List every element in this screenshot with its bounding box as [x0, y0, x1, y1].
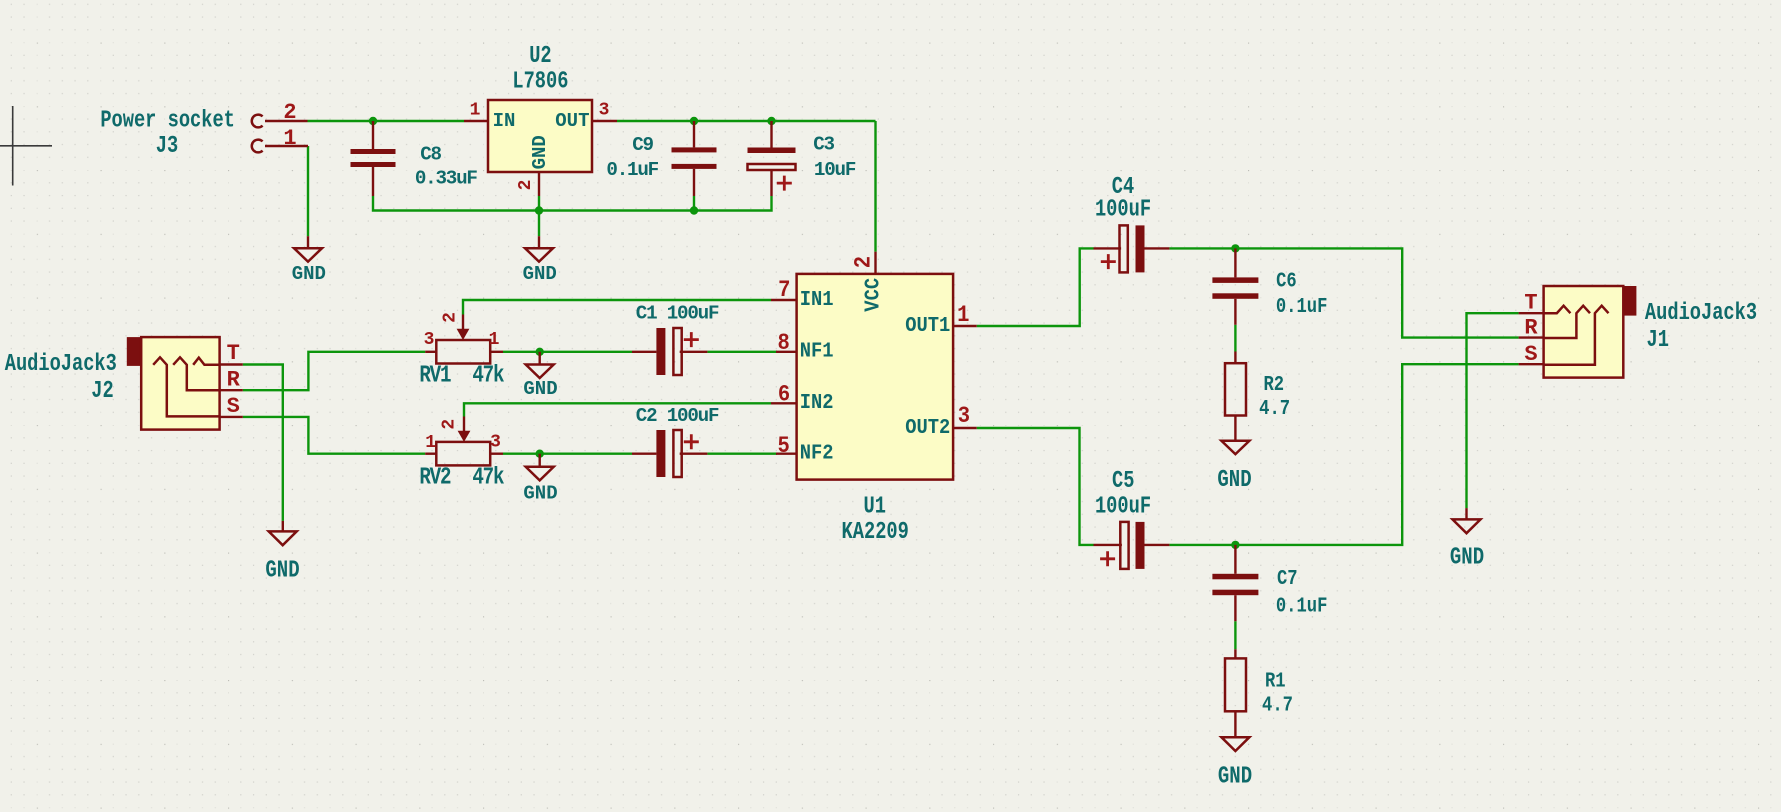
svg-text:100uF: 100uF — [1095, 492, 1151, 520]
svg-text:GND: GND — [265, 556, 299, 584]
svg-text:1: 1 — [489, 330, 500, 350]
regulator U2 body — [488, 100, 592, 172]
svg-text:C1 100uF: C1 100uF — [636, 303, 719, 325]
wire J3 pin2 to U2 IN — [308, 120, 465, 122]
U1 pin 7 — [771, 299, 797, 301]
svg-text:6: 6 — [778, 381, 790, 408]
wire NF2 left net — [503, 453, 632, 455]
wire NF2 right net — [707, 453, 777, 455]
J1 pin R — [1519, 336, 1544, 338]
svg-text:T: T — [1524, 291, 1537, 316]
svg-text:OUT2: OUT2 — [905, 416, 950, 440]
svg-text:C2 100uF: C2 100uF — [636, 405, 719, 427]
wire NF1 right net — [707, 351, 777, 353]
svg-text:R: R — [1524, 316, 1538, 341]
wire J1 T to GND drop — [1467, 313, 1519, 508]
svg-text:0.1uF: 0.1uF — [606, 159, 658, 181]
svg-text:KA2209: KA2209 — [842, 518, 909, 546]
wire C9 bottom stub — [693, 196, 695, 211]
svg-text:J2: J2 — [91, 377, 113, 405]
ground U2 — [538, 236, 540, 248]
svg-text:GND: GND — [523, 378, 557, 400]
J2 pin R — [220, 389, 243, 391]
svg-text:S: S — [1524, 342, 1537, 367]
svg-text:1: 1 — [470, 101, 481, 121]
U1 pin 1 — [953, 325, 977, 327]
svg-text:2: 2 — [850, 256, 877, 268]
svg-text:4.7: 4.7 — [1262, 693, 1293, 717]
ground NF1 junction — [539, 352, 541, 365]
svg-text:C9: C9 — [632, 134, 653, 156]
svg-text:2: 2 — [440, 419, 460, 430]
ground R1 — [1221, 737, 1249, 751]
junction C5 out — [1231, 541, 1239, 549]
wire down to U1 VCC — [874, 121, 876, 252]
capacitor C2 polarized — [632, 453, 656, 455]
svg-text:2: 2 — [441, 312, 461, 323]
capacitor C3 polarized — [770, 121, 772, 148]
svg-text:3: 3 — [958, 403, 970, 430]
audio jack J2 body — [127, 337, 143, 366]
capacitor C7 — [1234, 545, 1236, 574]
ground NF2 junction — [539, 454, 541, 468]
svg-text:100uF: 100uF — [1095, 195, 1151, 223]
sheet origin crosshair — [0, 106, 52, 186]
junction at C9 top — [690, 117, 698, 125]
wire U2 GND drop — [538, 211, 540, 237]
svg-text:S: S — [227, 394, 240, 419]
capacitor C1 polarized — [632, 351, 656, 353]
wire NF1 left net — [503, 351, 632, 353]
J2 contact S — [153, 357, 219, 416]
svg-text:1: 1 — [425, 433, 436, 453]
junction at C9 bottom rail — [690, 206, 698, 214]
wire U2 OUT to corner — [617, 120, 876, 122]
svg-text:AudioJack3: AudioJack3 — [1645, 299, 1757, 327]
U1 pin 5 — [776, 453, 797, 455]
svg-text:R: R — [227, 368, 241, 393]
svg-text:C3: C3 — [813, 134, 834, 156]
wire IN2 net — [464, 403, 771, 416]
U2 pin 3 — [592, 120, 617, 122]
wire J2 S to RV2 pin1 — [243, 417, 425, 454]
svg-text:IN1: IN1 — [800, 288, 834, 312]
wire J2 R to RV1 pin3 — [243, 352, 425, 390]
ground J2 — [282, 521, 284, 532]
wire C7 to R1 mid — [1234, 621, 1236, 649]
svg-text:R2: R2 — [1263, 372, 1284, 396]
svg-text:5: 5 — [777, 433, 789, 460]
U1 pin 6 — [771, 402, 797, 404]
svg-text:GND: GND — [523, 263, 557, 285]
svg-text:C7: C7 — [1277, 566, 1298, 590]
svg-text:T: T — [227, 341, 240, 366]
capacitor C8 — [372, 121, 374, 149]
svg-text:1: 1 — [283, 126, 296, 151]
svg-text:3: 3 — [424, 330, 435, 350]
junction at C8 top — [369, 117, 377, 125]
capacitor C5 polarized — [1094, 544, 1122, 546]
U2 pin 2 — [538, 172, 540, 196]
J2 contact R — [173, 357, 219, 390]
junction NF1 gnd — [536, 348, 544, 356]
audio jack J1 body — [1621, 286, 1637, 316]
svg-text:C5: C5 — [1112, 467, 1134, 495]
svg-text:2: 2 — [516, 180, 536, 191]
capacitor C9 — [693, 121, 695, 147]
svg-text:GND: GND — [529, 135, 551, 169]
svg-text:RV1: RV1 — [419, 362, 451, 390]
svg-text:Power socket: Power socket — [100, 106, 235, 134]
wire C4 to J1 R — [1169, 248, 1518, 337]
wire C5 to J1 S — [1169, 364, 1518, 545]
svg-text:0.33uF: 0.33uF — [415, 168, 478, 190]
svg-text:1: 1 — [957, 302, 969, 329]
svg-text:J1: J1 — [1646, 326, 1668, 354]
svg-text:GND: GND — [523, 482, 557, 504]
J2 contact T — [193, 358, 219, 365]
svg-text:C6: C6 — [1276, 269, 1297, 293]
svg-text:4.7: 4.7 — [1259, 396, 1290, 420]
svg-text:NF1: NF1 — [800, 340, 834, 364]
svg-text:GND: GND — [1450, 543, 1484, 571]
svg-text:47k: 47k — [472, 362, 504, 390]
junction at U2 GND rail — [535, 206, 543, 214]
svg-text:2: 2 — [283, 100, 296, 125]
junction at C3 top — [767, 117, 775, 125]
svg-text:GND: GND — [292, 263, 326, 285]
svg-text:10uF: 10uF — [814, 159, 856, 181]
svg-text:OUT: OUT — [555, 110, 589, 132]
wire OUT2 to C5 — [977, 428, 1094, 545]
svg-text:RV2: RV2 — [419, 464, 450, 492]
capacitor C6 — [1234, 248, 1236, 277]
U2 pin 1 — [464, 120, 488, 122]
svg-text:C8: C8 — [420, 144, 441, 166]
svg-text:J3: J3 — [156, 132, 178, 160]
svg-text:8: 8 — [778, 330, 790, 357]
svg-text:0.1uF: 0.1uF — [1276, 295, 1328, 319]
J1 contact S — [1544, 306, 1609, 365]
svg-text:47k: 47k — [472, 464, 504, 492]
J1 contact T — [1544, 306, 1571, 314]
wire bottom rail C8 to C3 — [373, 196, 772, 211]
wire J2 T to GND drop — [243, 365, 283, 521]
connector J3 pin 1 — [252, 140, 263, 153]
junction NF2 gnd — [536, 450, 544, 458]
svg-text:GND: GND — [1217, 466, 1251, 494]
svg-text:GND: GND — [1218, 763, 1252, 791]
svg-text:U2: U2 — [529, 42, 551, 70]
junction C4 out — [1231, 244, 1239, 252]
svg-text:IN2: IN2 — [800, 391, 834, 415]
J1 pin T — [1519, 312, 1544, 314]
U1 pin 2 VCC — [874, 252, 876, 274]
U1 pin 8 — [776, 351, 797, 353]
svg-text:3: 3 — [599, 101, 610, 121]
ground R2 — [1221, 441, 1249, 454]
wire U2 GND stub — [538, 196, 540, 211]
svg-text:VCC: VCC — [862, 278, 886, 312]
svg-text:0.1uF: 0.1uF — [1276, 594, 1328, 618]
svg-text:3: 3 — [490, 433, 501, 453]
capacitor C4 polarized — [1094, 247, 1122, 249]
svg-text:OUT1: OUT1 — [905, 314, 950, 338]
svg-text:U1: U1 — [863, 492, 885, 520]
svg-text:L7806: L7806 — [512, 67, 568, 95]
wire C6 to R2 mid — [1234, 325, 1236, 352]
wire J3 pin1 down — [307, 146, 309, 236]
resistor R1 — [1234, 649, 1236, 658]
svg-text:AudioJack3: AudioJack3 — [5, 350, 117, 378]
J1 contact R — [1544, 306, 1590, 338]
resistor R2 — [1234, 352, 1236, 364]
U1 pin 3 — [953, 427, 977, 429]
potentiometer RV2 — [436, 442, 490, 466]
potentiometer RV1 — [436, 340, 490, 364]
connector J3 pin 2 — [252, 115, 263, 128]
J1 pin S — [1519, 363, 1544, 365]
IC U1 body — [797, 274, 954, 480]
svg-text:7: 7 — [778, 277, 790, 304]
wire IN1 net — [463, 300, 771, 315]
ground J3 — [307, 236, 309, 248]
J2 pin S — [220, 416, 243, 418]
ground J1 — [1465, 508, 1467, 519]
svg-text:R1: R1 — [1265, 669, 1286, 693]
J2 pin T — [220, 363, 243, 365]
svg-text:NF2: NF2 — [800, 441, 834, 465]
svg-text:IN: IN — [493, 110, 516, 132]
wire OUT1 to C4 — [977, 248, 1094, 326]
